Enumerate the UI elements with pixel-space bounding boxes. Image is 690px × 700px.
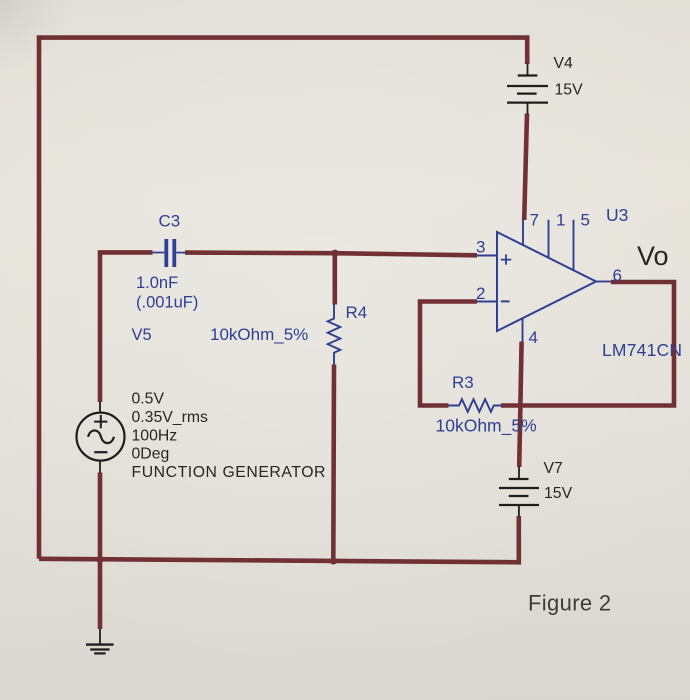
wire: R4 top lead to node on pin-3 net xyxy=(332,253,337,304)
wire: V5 bottom down through rail to ground xyxy=(98,473,103,630)
svg-text:V5: V5 xyxy=(132,326,152,344)
resistor R4 xyxy=(328,305,341,365)
svg-text:5: 5 xyxy=(581,211,590,230)
svg-text:2: 2 xyxy=(476,284,485,303)
svg-text:LM741CN: LM741CN xyxy=(602,340,682,360)
source V5 function generator xyxy=(77,402,125,473)
wire: R4 bottom lead down to bottom rail xyxy=(331,365,336,562)
capacitor C3 xyxy=(152,239,186,267)
resistor R3 xyxy=(448,399,502,412)
svg-text:FUNCTION GENERATOR: FUNCTION GENERATOR xyxy=(132,464,327,481)
battery V7 xyxy=(499,467,539,517)
svg-text:R4: R4 xyxy=(346,303,368,322)
wire: V5 top to C3 left plate xyxy=(100,252,153,402)
svg-text:100Hz: 100Hz xyxy=(132,427,178,444)
ground xyxy=(86,629,114,653)
svg-text:10kOhm_5%: 10kOhm_5% xyxy=(210,325,308,344)
svg-text:0.5V: 0.5V xyxy=(132,391,165,408)
svg-text:4: 4 xyxy=(529,328,538,347)
svg-text:Vo: Vo xyxy=(637,241,669,271)
svg-text:Figure 2: Figure 2 xyxy=(528,591,612,616)
wire: V4 negative down to op-amp pin 7 xyxy=(524,114,527,221)
svg-text:(.001uF): (.001uF) xyxy=(136,294,198,312)
svg-text:V4: V4 xyxy=(554,55,574,72)
svg-text:15V: 15V xyxy=(544,485,573,502)
svg-text:0Deg: 0Deg xyxy=(132,446,170,463)
op-amp U3 xyxy=(477,220,612,342)
svg-text:0.35V_rms: 0.35V_rms xyxy=(132,409,208,426)
svg-text:10kOhm_5%: 10kOhm_5% xyxy=(436,416,537,437)
svg-text:R3: R3 xyxy=(452,373,474,392)
wire: bottom rail from left loop to V7 negative xyxy=(39,516,519,562)
svg-text:6: 6 xyxy=(613,266,622,285)
battery V4 xyxy=(507,64,548,115)
svg-text:1: 1 xyxy=(556,211,565,230)
node: junction of C3 output, R4 and pin 3 net xyxy=(331,250,338,257)
wire: op-amp pin 4 down to V7 positive xyxy=(519,342,521,468)
wire: op-amp pin 2 left, down and right to R3 left lead xyxy=(420,302,477,406)
svg-text:7: 7 xyxy=(530,211,539,230)
wire: outer loop left/top from bottom rail up to V4 positive xyxy=(39,38,527,559)
wire: C3 right plate to op-amp pin 3 xyxy=(185,253,477,256)
svg-text:15V: 15V xyxy=(555,82,584,99)
svg-text:C3: C3 xyxy=(159,212,181,231)
svg-text:U3: U3 xyxy=(606,205,628,225)
svg-text:V7: V7 xyxy=(544,460,563,477)
svg-text:1.0nF: 1.0nF xyxy=(136,274,178,292)
svg-text:3: 3 xyxy=(476,238,485,257)
node: junction of R4 bottom with bottom rail xyxy=(330,557,337,564)
node: junction of V5 negative with bottom rail and ground xyxy=(96,556,103,563)
wire: output pin 6 to Vo corner, down right edge, left to R3 right lead xyxy=(501,282,674,406)
